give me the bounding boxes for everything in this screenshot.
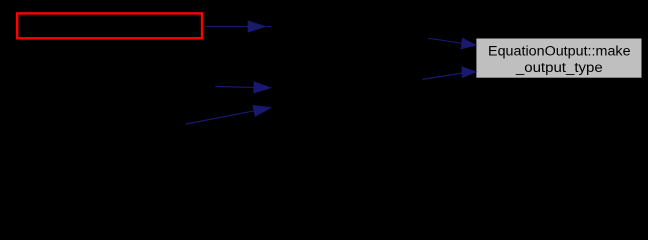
edge A1: red node -> middle node 1 bbox=[205, 21, 272, 32]
edge A4: middle node 1 -> target bbox=[428, 38, 476, 48]
svg-text:_output_type: _output_type bbox=[515, 60, 603, 76]
edge A5: middle node 2 -> target bbox=[422, 67, 476, 79]
edge A3: bottom-left node -> middle node 2 bbox=[186, 106, 271, 125]
svg-text:EquationOutput::make: EquationOutput::make bbox=[488, 43, 631, 59]
node: caller (red, truncated) bbox=[17, 13, 202, 38]
node U_target: EquationOutput::make_output_type bbox=[476, 38, 642, 78]
edge A2: lower-left node -> middle node 2 bbox=[215, 82, 270, 93]
